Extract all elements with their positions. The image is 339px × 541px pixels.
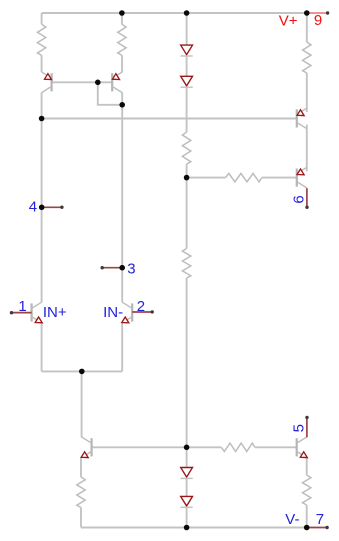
pin 5 stub bbox=[306, 418, 308, 437]
resistor R3 bbox=[303, 42, 311, 73]
resistor R5 bbox=[182, 248, 190, 278]
wire V+ to R3 bbox=[306, 13, 308, 42]
diode D2 bbox=[181, 76, 193, 86]
wire mid node to R8 bbox=[187, 177, 226, 179]
wire R8 to Q6 base bbox=[262, 177, 297, 179]
junction lower mid node B bbox=[184, 445, 190, 451]
pin 7 stub (V-) bbox=[307, 527, 327, 529]
transistor Q8 (npn, output) bbox=[297, 437, 308, 458]
svg-text:9: 9 bbox=[314, 12, 322, 29]
junction pin 4 tap bbox=[39, 205, 45, 211]
pin 2 stub bbox=[132, 311, 152, 313]
wire between D3 and D4 bbox=[186, 479, 188, 496]
svg-text:6: 6 bbox=[290, 195, 307, 203]
wire middle column top bbox=[186, 13, 188, 45]
pin 4 stub bbox=[42, 206, 62, 208]
resistor R9 bbox=[221, 443, 255, 451]
wire left column x41.6 bbox=[41, 93, 43, 303]
wire R3 to Q5 emitter bbox=[306, 73, 308, 112]
wire Q3 emitter down bbox=[41, 323, 43, 372]
pin 9 stub (V+) bbox=[307, 12, 328, 14]
junction emitter rail bbox=[79, 369, 85, 375]
svg-text:IN+: IN+ bbox=[43, 304, 67, 321]
transistor Q7 (npn) bbox=[81, 437, 91, 458]
wire Q1 collector to Q5 base bbox=[42, 118, 297, 120]
pin 1 end dot bbox=[10, 311, 13, 314]
junction mid node A bbox=[184, 175, 190, 181]
diode D4 bbox=[181, 496, 193, 506]
junction top rail / R2 bbox=[119, 10, 125, 16]
svg-text:3: 3 bbox=[127, 261, 135, 278]
wire Q4 emitter down bbox=[121, 323, 123, 372]
wire Q7 base to mid node bbox=[92, 446, 187, 448]
diode D3 bbox=[181, 468, 193, 478]
diode D1 bbox=[181, 45, 193, 55]
transistor Q6 (pnp, output) bbox=[297, 167, 307, 188]
wire Q5 collector to Q6 emitter bbox=[306, 125, 308, 172]
wire R9 to Q8 base bbox=[255, 446, 297, 448]
pin 2 end dot bbox=[151, 310, 154, 313]
wire Q7 emitter to R6 bbox=[80, 458, 82, 477]
wire Q8 emitter to R7 bbox=[306, 458, 308, 475]
wire mid node to R9 bbox=[187, 446, 222, 448]
svg-text:V-: V- bbox=[285, 511, 299, 528]
junction Q1-Q2 bases bbox=[95, 80, 101, 86]
pin 1 stub bbox=[12, 312, 32, 314]
wire R4 to mid node bbox=[186, 164, 188, 248]
svg-text:7: 7 bbox=[316, 511, 324, 528]
junction bottom rail / diode chain bbox=[184, 525, 190, 531]
junction top rail / R3 / pin 9 bbox=[304, 10, 310, 16]
pin 3 end dot bbox=[101, 266, 104, 269]
pin 7 end dot bbox=[325, 526, 328, 529]
pin 4 end dot bbox=[60, 206, 63, 209]
resistor R4 bbox=[182, 132, 190, 164]
junction Q1 collector / Q5 base wire bbox=[39, 116, 45, 122]
svg-text:1: 1 bbox=[18, 298, 26, 315]
resistor R2 bbox=[118, 24, 126, 55]
transistor Q5 (pnp) bbox=[297, 108, 307, 129]
svg-text:V+: V+ bbox=[279, 12, 298, 29]
pin 5 end dot bbox=[305, 416, 308, 419]
pin 6 end dot bbox=[305, 206, 308, 209]
pin 6 stub bbox=[306, 188, 308, 207]
pin 3 stub bbox=[102, 267, 122, 269]
wire top rail to R2 bbox=[121, 13, 123, 24]
transistor Q4 (npn, IN-) bbox=[122, 302, 132, 323]
wire D4 to bottom rail bbox=[186, 508, 188, 528]
svg-text:IN-: IN- bbox=[103, 304, 123, 321]
transistor Q3 (npn, IN+) bbox=[32, 302, 43, 323]
junction top rail / diode chain bbox=[184, 10, 190, 16]
transistor Q1 (pnp) bbox=[42, 72, 52, 93]
resistor R8 bbox=[226, 173, 262, 181]
junction bottom rail / R7 / pin 7 bbox=[304, 525, 310, 531]
junction pin 3 tap bbox=[119, 265, 125, 271]
wire Q1-Q2 base link bbox=[52, 81, 113, 83]
resistor R7 bbox=[303, 475, 311, 505]
svg-text:2: 2 bbox=[137, 298, 145, 315]
wire R7 to bottom rail bbox=[306, 505, 308, 528]
wire Q2 base to collector (diode connection) bbox=[98, 82, 122, 105]
pin 9 end dot bbox=[326, 11, 329, 14]
wire top rail to R1 bbox=[41, 13, 43, 24]
wire bottom rail V- net bbox=[81, 527, 307, 529]
wire inner column x122.2 bbox=[121, 93, 123, 303]
wire R2 to Q2 emitter bbox=[121, 55, 123, 72]
wire R6 to bottom rail bbox=[80, 508, 82, 528]
wire R5 to lower mid node bbox=[186, 278, 188, 468]
wire emitter rail bbox=[42, 370, 123, 372]
wire top rail V+ net bbox=[42, 12, 307, 14]
wire tail current feed to Q7 bbox=[81, 371, 83, 437]
wire between D1 and D2 bbox=[186, 57, 188, 77]
junction Q2 collector tie bbox=[119, 102, 125, 108]
svg-text:4: 4 bbox=[29, 198, 37, 215]
wire R1 to Q1 emitter bbox=[41, 55, 43, 72]
wire D2 to R4 bbox=[186, 88, 188, 132]
transistor Q2 (pnp, diode-connected) bbox=[112, 72, 122, 93]
svg-text:5: 5 bbox=[290, 424, 307, 432]
resistor R1 bbox=[37, 24, 45, 55]
resistor R6 bbox=[77, 477, 85, 508]
